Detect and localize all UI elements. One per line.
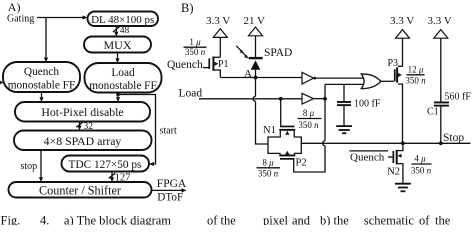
svg-text:A): A) — [8, 0, 21, 14]
wire start branch horizontal — [118, 95, 156, 165]
capacitor 100fF — [343, 84, 345, 101]
svg-text:Quench: Quench — [24, 66, 59, 78]
svg-text:Hot-Pixel disable: Hot-Pixel disable — [41, 105, 123, 119]
svg-text:Quench: Quench — [350, 151, 385, 163]
transistor P3 — [394, 69, 396, 81]
junction dot Load to N1 gate — [279, 97, 283, 101]
wire N1 gate vertical — [280, 99, 282, 126]
ground for 100fF cap — [336, 125, 352, 127]
wire FPGA output arrow — [152, 189, 184, 191]
svg-text:350 n: 350 n — [411, 166, 432, 176]
svg-text:Load: Load — [111, 67, 135, 79]
svg-text:21 V: 21 V — [244, 15, 266, 27]
svg-text:start: start — [160, 126, 177, 137]
junction dot on Load output — [116, 93, 120, 97]
junction dot node A — [254, 76, 258, 80]
buffer U2 — [302, 93, 314, 104]
svg-text:8 μ: 8 μ — [262, 158, 274, 168]
svg-text:8 μ: 8 μ — [303, 108, 315, 118]
wire U1 output to OR input — [314, 77, 368, 79]
svg-text:P1: P1 — [218, 59, 229, 70]
svg-text:350 n: 350 n — [185, 47, 206, 57]
wire N2 drain stub to Stop line — [398, 143, 403, 150]
wire Gating horizontal — [37, 17, 85, 19]
svg-text:48: 48 — [120, 26, 130, 36]
capacitor C1 — [440, 38, 442, 101]
wire N2 source stub to ground — [398, 164, 403, 184]
svg-text:100 fF: 100 fF — [354, 99, 381, 110]
wire Load box to Hot-Pixel — [117, 93, 119, 100]
svg-text:Load: Load — [179, 88, 203, 100]
wire node A horizontal — [220, 77, 302, 79]
svg-text:DToF: DToF — [157, 192, 183, 204]
transistor N1 (transmission gate top) — [280, 126, 295, 128]
wire N2 gate — [388, 156, 393, 158]
junction dot U2 output — [323, 97, 327, 101]
svg-text:3.3 V: 3.3 V — [390, 15, 414, 27]
photon arrow 2 — [241, 51, 246, 56]
svg-text:B): B) — [181, 1, 194, 15]
wire Quench box to Hot-Pixel — [41, 92, 43, 100]
wire U2 output net vertical (hops over Stop line) to P2 gate — [294, 84, 325, 172]
svg-text:P2: P2 — [296, 157, 307, 168]
svg-text:P3: P3 — [388, 58, 399, 69]
block 4x8 SPAD array — [14, 131, 152, 151]
wire MUX to Load monostable — [117, 53, 119, 61]
svg-text:SPAD: SPAD — [264, 47, 292, 59]
wire node A vertical to transmission gate (hops over Load line) — [253, 78, 268, 145]
svg-text:4 μ: 4 μ — [414, 154, 426, 164]
svg-text:N2: N2 — [387, 167, 400, 178]
wire stop — [40, 150, 42, 180]
wire P1 drain stub to node A — [213, 70, 220, 78]
block Load monostable FF — [85, 63, 162, 93]
svg-text:TDC 127×50 ps: TDC 127×50 ps — [69, 159, 142, 171]
svg-text:350 n: 350 n — [258, 169, 279, 179]
svg-text:stop: stop — [21, 161, 38, 172]
svg-text:monostable FF: monostable FF — [89, 80, 156, 92]
svg-text:N1: N1 — [263, 125, 276, 136]
svg-text:Gating: Gating — [7, 14, 34, 25]
wire P1 source stub to 3.3V — [213, 56, 220, 58]
wire stub into Quench box left — [0, 81, 4, 85]
OR gate U3 — [361, 74, 381, 89]
svg-text:C1: C1 — [427, 107, 439, 118]
bus arrow 48 — [115, 26, 117, 34]
transistor N2 — [393, 151, 395, 163]
wire Load horizontal — [199, 98, 302, 100]
junction dot buffer U1 output — [313, 77, 316, 80]
svg-text:A: A — [244, 68, 252, 80]
svg-text:1 μ: 1 μ — [189, 37, 201, 47]
svg-text:4×8 SPAD array: 4×8 SPAD array — [44, 134, 122, 148]
junction dot C1 on Stop line — [439, 141, 443, 145]
svg-text:Fig.4.a) The block diagramof t: Fig.4.a) The block diagramof thepixeland… — [1, 213, 451, 225]
photodiode SPAD — [249, 57, 263, 59]
svg-text:MUX: MUX — [103, 38, 131, 52]
svg-text:DL 48×100 ps: DL 48×100 ps — [91, 14, 154, 26]
wire P1 gate — [203, 67, 209, 69]
transmission gate loop — [268, 131, 280, 155]
svg-text:3.3 V: 3.3 V — [428, 15, 452, 27]
bus arrow 32 — [79, 122, 81, 129]
svg-text:Quench: Quench — [167, 59, 203, 71]
block Counter / Shifter — [9, 182, 152, 198]
wire U2 output — [314, 98, 326, 100]
photon arrow 1 — [236, 46, 241, 51]
svg-text:350 n: 350 n — [298, 120, 319, 130]
svg-text:560 fF: 560 fF — [445, 92, 472, 103]
block DL delay line — [88, 12, 159, 27]
block TDC — [62, 156, 150, 172]
svg-text:12 μ: 12 μ — [408, 65, 424, 75]
block MUX — [84, 37, 151, 53]
ground for N2 — [395, 183, 411, 185]
bus arrow 127 — [111, 172, 113, 180]
block Quench monostable FF — [3, 62, 80, 92]
svg-text:3.3 V: 3.3 V — [206, 15, 230, 27]
wire Gating vertical branch — [45, 18, 47, 60]
transistor P1 — [208, 58, 210, 69]
svg-text:350 n: 350 n — [405, 76, 426, 86]
wire P3 drain stub down to Stop line — [398, 84, 403, 143]
junction dot P3/N2 drain on Stop line — [401, 141, 405, 145]
svg-text:monostable FF: monostable FF — [8, 79, 75, 91]
wire OR output to P3 gate — [381, 80, 394, 82]
transistor P2 (transmission gate bottom) — [279, 155, 295, 157]
wire Stop line — [301, 142, 470, 144]
block Hot-Pixel disable — [15, 102, 150, 122]
buffer U1 — [302, 72, 314, 84]
wire U2 net to OR lower input — [325, 83, 367, 85]
svg-text:FPGA: FPGA — [157, 178, 187, 190]
svg-text:Stop: Stop — [443, 132, 464, 144]
svg-text:Counter / Shifter: Counter / Shifter — [39, 183, 121, 197]
wire P3 source stub to 3.3V — [398, 38, 403, 66]
